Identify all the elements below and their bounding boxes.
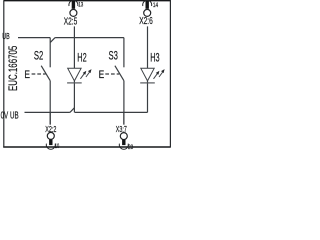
- svg-text:E: E: [24, 69, 30, 81]
- svg-text:X2:5: X2:5: [64, 17, 78, 28]
- svg-text:14: 14: [153, 2, 158, 9]
- svg-text:S2: S2: [34, 49, 43, 63]
- svg-text:X3:7: X3:7: [116, 124, 127, 134]
- svg-text:S3: S3: [109, 49, 118, 63]
- svg-text:0V UB: 0V UB: [1, 110, 19, 121]
- svg-text:H3: H3: [150, 51, 159, 65]
- svg-text:10: 10: [55, 143, 60, 150]
- svg-text:X2:6: X2:6: [139, 16, 153, 27]
- svg-text:EUC.166705: EUC.166705: [8, 46, 20, 91]
- svg-text:E: E: [99, 69, 105, 81]
- svg-text:X2:2: X2:2: [45, 124, 56, 134]
- svg-text:H2: H2: [77, 50, 86, 64]
- svg-text:13: 13: [78, 2, 83, 9]
- svg-text:UB: UB: [2, 31, 10, 41]
- svg-text:23: 23: [128, 144, 133, 150]
